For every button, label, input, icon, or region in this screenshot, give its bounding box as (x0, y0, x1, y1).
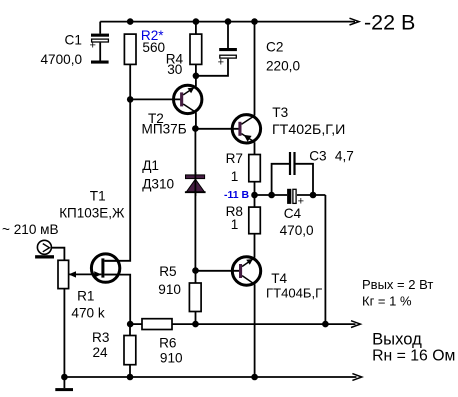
wire node B to T2 base (130, 98, 180, 100)
wire diode column (194, 129, 196, 271)
svg-text:Д1: Д1 (142, 158, 159, 173)
svg-text:КП103Е,Ж: КП103Е,Ж (59, 205, 125, 220)
wire R5 top lead (195, 271, 197, 283)
wire R6 left lead (130, 323, 142, 325)
svg-text:T1: T1 (90, 188, 106, 203)
svg-text:910: 910 (158, 282, 181, 297)
svg-text:+: + (90, 40, 96, 52)
wire R8 top lead (254, 195, 256, 207)
ground rail arrow (352, 374, 361, 381)
power -22 В arrow (350, 11, 416, 35)
node rail-C2 (225, 18, 232, 25)
svg-text:ГТ402Б,Г,И: ГТ402Б,Г,И (272, 122, 345, 138)
svg-text:R6: R6 (159, 336, 176, 351)
svg-text:910: 910 (160, 351, 183, 366)
svg-text:1: 1 (231, 169, 239, 184)
wire R5 bottom lead (195, 312, 197, 325)
svg-text:R1: R1 (77, 289, 94, 304)
wire input to R1 top (52, 248, 65, 261)
wire top -22V rail (100, 21, 355, 23)
resistor R8 (226, 204, 261, 234)
svg-text:+: + (218, 57, 224, 69)
resistor R3 (92, 330, 136, 365)
wire R8 bottom to T4 emitter (254, 234, 256, 258)
transistor T4 (232, 257, 322, 301)
svg-text:C4: C4 (284, 206, 302, 221)
svg-text:C3: C3 (309, 149, 326, 164)
wire node to T3 base (195, 128, 239, 130)
wire R2 bottom to node B (129, 64, 131, 99)
svg-text:470,0: 470,0 (280, 223, 314, 238)
svg-text:220,0: 220,0 (266, 59, 300, 74)
wire R6 right lead (172, 323, 196, 325)
svg-text:1: 1 (231, 217, 239, 232)
capacitor C4 (280, 189, 314, 238)
potentiometer R1 (58, 260, 105, 320)
svg-text:-11 В: -11 В (224, 189, 250, 201)
output labels (362, 277, 455, 365)
node C4 branch/output (322, 321, 329, 328)
svg-text:30: 30 (167, 62, 183, 77)
node ground-T4 (251, 374, 258, 381)
svg-text:Рвых = 2 Вт: Рвых = 2 Вт (362, 277, 433, 292)
wire T2 collector to node (195, 112, 197, 128)
svg-text:470 k: 470 k (71, 305, 104, 320)
node ground-R1 (61, 374, 68, 381)
node rail-T3 (251, 18, 258, 25)
svg-text:C1: C1 (65, 33, 82, 48)
capacitor C1 (41, 22, 110, 67)
wire R3 bottom lead (129, 365, 131, 377)
input source (2, 222, 59, 258)
ground (55, 377, 73, 391)
wire R3 top lead (129, 324, 131, 335)
wire T3 emitter to R7 (254, 142, 256, 154)
wire rail to T3 collector (254, 22, 256, 116)
resistor R7 (226, 151, 261, 184)
wire R1 wiper to T1 gate (69, 273, 102, 275)
svg-text:~ 210 мВ: ~ 210 мВ (2, 222, 59, 237)
node ground-R3 (127, 374, 134, 381)
node R4/C2/T2 emitter (193, 73, 200, 80)
wire R7 bottom to node (254, 182, 256, 195)
node rail-R2 (127, 18, 134, 25)
transistor T2 (142, 85, 202, 136)
diode D1 (142, 158, 205, 196)
resistor R2 (124, 28, 165, 64)
node B R2/T2 base/T1 drain (127, 96, 134, 103)
node R7/R8/C4 (251, 192, 258, 199)
node T2 collector/T3 base (192, 125, 199, 132)
svg-text:Выход: Выход (372, 329, 422, 348)
resistor R5 (158, 264, 201, 312)
wire C2 bottom to node (196, 59, 228, 76)
svg-text:Rн = 16 Ом: Rн = 16 Ом (372, 348, 455, 365)
transistor T3 (232, 105, 345, 143)
capacitor C2 (218, 40, 301, 74)
svg-text:T3: T3 (272, 105, 288, 120)
svg-text:T4: T4 (271, 271, 287, 286)
node C3 right (310, 192, 317, 199)
wire C4 right to corner (297, 194, 325, 196)
svg-text:R3: R3 (92, 330, 109, 345)
wire node to C4 left (255, 194, 288, 196)
node C3 left (268, 192, 275, 199)
resistor R6 (142, 319, 183, 366)
wire T4 collector down to ground (254, 284, 256, 377)
svg-text:4,7: 4,7 (335, 149, 354, 164)
svg-text:Д310: Д310 (142, 177, 174, 192)
svg-text:4700,0: 4700,0 (41, 52, 83, 67)
wire output line (196, 323, 356, 325)
wire node B down to T1 drain (104, 99, 130, 260)
wire node to T4 base (196, 270, 240, 272)
wire C3 left lead (272, 164, 290, 195)
output arrow (351, 321, 360, 328)
capacitor C3 (289, 149, 354, 175)
svg-text:-22 В: -22 В (364, 11, 415, 35)
wire C3 right lead (295, 164, 314, 195)
node rail-R4 (193, 18, 200, 25)
node R6 left (127, 321, 134, 328)
svg-text:24: 24 (93, 345, 109, 360)
wire corner down to output (324, 195, 326, 324)
svg-text:560: 560 (142, 40, 165, 55)
svg-text:R7: R7 (226, 151, 243, 166)
transistor T1 (JFET) (59, 188, 125, 282)
resistor R4 (166, 34, 202, 77)
wire R4 bottom lead (195, 64, 197, 75)
svg-text:Кг = 1 %: Кг = 1 % (362, 293, 412, 308)
node R5/R6 output (192, 321, 199, 328)
svg-text:R5: R5 (159, 264, 176, 279)
wire T2 emitter up (195, 76, 197, 87)
wire bottom ground rail (64, 376, 356, 378)
svg-text:C2: C2 (266, 40, 283, 55)
svg-text:ГТ404Б,Г: ГТ404Б,Г (266, 286, 322, 301)
wire T1 source down (104, 275, 130, 325)
wire R1 bottom to ground rail (63, 289, 65, 377)
wire C2 top lead (227, 22, 229, 48)
node diode/R5/T4 base (192, 267, 199, 274)
svg-text:МП37Б: МП37Б (142, 122, 187, 137)
wire R4 top lead (195, 22, 197, 34)
